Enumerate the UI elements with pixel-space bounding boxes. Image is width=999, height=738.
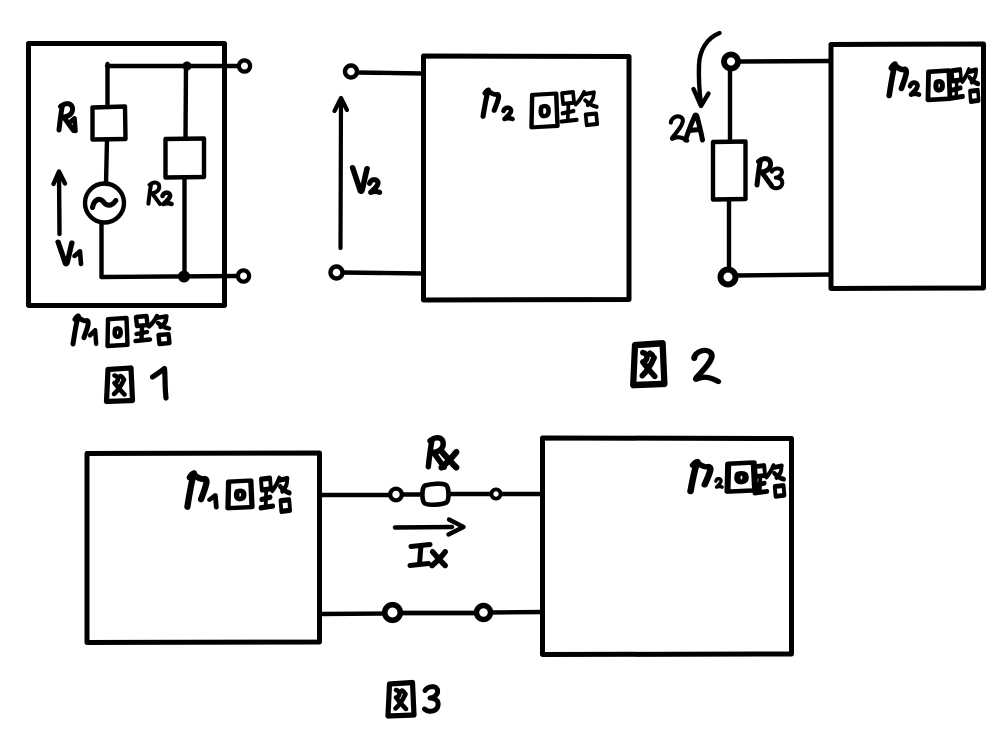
label zu 2 (fig2 caption) <box>633 343 664 385</box>
wire: R2 branch top <box>183 66 188 139</box>
terminal: fig3 top left small circle <box>390 489 402 501</box>
label R3 <box>757 159 772 186</box>
wire: R1 to source V1 <box>106 140 107 185</box>
wire: circle to Rx <box>402 492 421 496</box>
label N1 kairo (fig3) <box>187 473 206 507</box>
N2 circuit box (figure 2 right) <box>831 44 984 289</box>
label N1 kairo (fig1) <box>73 316 88 344</box>
arrow: V2 reference <box>338 99 343 249</box>
wire: fig3 bottom lead left <box>320 611 385 616</box>
wire: fig2 top lead <box>358 73 424 74</box>
wire: fig2 bottom lead <box>343 273 423 274</box>
label V2 <box>353 167 368 191</box>
wire: fig2 right bottom lead <box>736 275 831 276</box>
resistor R2 <box>166 139 205 178</box>
wire: fig2 right top lead <box>738 59 831 64</box>
terminal: fig2 right bottom <box>721 270 736 285</box>
wire: fig3 top lead left <box>320 493 391 497</box>
terminal: fig3 top right small circle <box>491 489 500 498</box>
label R1 <box>59 104 74 131</box>
terminal: fig3 bottom right circle <box>477 606 491 620</box>
wire: fig1 left branch vertical to R1 <box>105 64 109 107</box>
label Ix <box>410 545 430 566</box>
wire: R2 branch bottom <box>182 178 186 277</box>
terminal: fig1 bottom right <box>238 270 249 281</box>
arrow: Ix direction <box>395 525 452 530</box>
wire: R3 to bottom terminal <box>727 200 731 268</box>
N2 circuit box (figure 2 left) <box>424 56 630 300</box>
wire: source V1 to bottom rail <box>99 223 103 278</box>
terminal: fig2 right top <box>724 55 738 69</box>
label N2 kairo (fig3) <box>690 461 710 491</box>
resistor R1 <box>93 107 126 140</box>
terminal: fig2 left top <box>345 66 357 78</box>
arrow: V1 reference <box>57 172 62 234</box>
resistor R3 <box>713 142 746 200</box>
terminal: fig1 top right <box>239 60 250 71</box>
label N2 kairo (fig2 right) <box>889 64 906 95</box>
label N2 kairo (fig2 left) <box>483 90 499 117</box>
label zu 1 (fig1 caption) <box>107 368 133 402</box>
wire: fig3 bottom middle <box>401 611 476 616</box>
wire: fig1 top rail <box>107 64 238 68</box>
wire: fig3 top lead right <box>501 492 542 496</box>
label zu 3 (fig3 caption) <box>388 683 414 717</box>
terminal: fig2 left bottom <box>331 267 343 279</box>
label R2 <box>148 183 160 204</box>
wire: Rx to second circle <box>450 492 491 496</box>
node: fig1 bottom junction <box>178 271 190 283</box>
arrow: 2A current direction (curved) <box>699 33 720 105</box>
wire: fig3 bottom lead right <box>491 610 543 615</box>
source V1 (AC) <box>85 184 124 223</box>
label V1 <box>58 242 72 264</box>
N2 circuit box (figure 3) <box>543 438 792 655</box>
label 2A <box>671 116 687 140</box>
resistor Rx <box>422 484 448 505</box>
wire: fig1 bottom rail <box>102 276 239 277</box>
label Rx <box>428 438 444 467</box>
N1 circuit box (figure 1) <box>29 44 225 306</box>
node: fig1 top junction <box>182 61 191 70</box>
wire: terminal to R3 <box>728 69 732 142</box>
N1 circuit box (figure 3) <box>87 453 320 643</box>
terminal: fig3 bottom left circle <box>385 605 401 621</box>
